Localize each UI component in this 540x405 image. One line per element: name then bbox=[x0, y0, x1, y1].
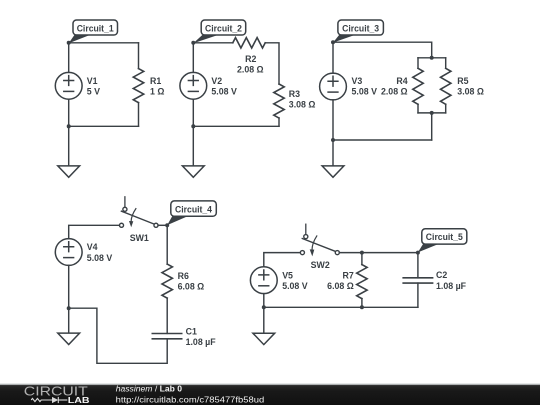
V5 value label bbox=[282, 270, 308, 291]
svg-text:R6: R6 bbox=[178, 271, 189, 281]
junction dot parallel top bbox=[430, 56, 434, 60]
wire to ground circuit 1 bbox=[68, 126, 70, 165]
wire R7 top stub bbox=[361, 253, 363, 265]
voltage source V5 bbox=[250, 267, 277, 294]
svg-text:V1: V1 bbox=[87, 76, 98, 86]
ground circuit 1 bbox=[58, 166, 80, 177]
C2 value label bbox=[436, 270, 467, 291]
voltage source V3 bbox=[320, 73, 347, 100]
wire node to C2 bbox=[417, 253, 419, 278]
svg-text:1 Ω: 1 Ω bbox=[150, 87, 164, 97]
wire V5 bottom bbox=[263, 294, 265, 308]
node label Circuit_3 bbox=[333, 20, 383, 43]
svg-text:Circuit_4: Circuit_4 bbox=[175, 204, 212, 214]
voltage source V2 bbox=[180, 72, 207, 99]
wire V1 bottom bbox=[68, 99, 70, 126]
C1 value label bbox=[186, 326, 217, 347]
junction dot circuit 1 bottom bbox=[67, 124, 71, 128]
svg-text:6.08 Ω: 6.08 Ω bbox=[178, 282, 205, 292]
footer black bar bbox=[0, 385, 540, 405]
V1 value label bbox=[87, 76, 100, 97]
wire V4 bottom bbox=[68, 265, 70, 308]
svg-text:V3: V3 bbox=[352, 76, 363, 86]
svg-text:R2: R2 bbox=[245, 54, 256, 64]
R7 value label bbox=[327, 271, 354, 292]
wire C1 bottom loop bbox=[69, 308, 168, 363]
svg-text:SW1: SW1 bbox=[130, 233, 149, 243]
node A3 junction dot bbox=[331, 40, 335, 44]
switch SW1 bbox=[119, 197, 158, 228]
junction dot R7 top bbox=[360, 251, 364, 255]
svg-text:C1: C1 bbox=[186, 326, 197, 336]
wire top circuit 1 bbox=[69, 42, 139, 44]
svg-text:V5: V5 bbox=[282, 270, 293, 280]
svg-text:R3: R3 bbox=[289, 89, 300, 99]
wire to ground circuit 2 bbox=[192, 126, 194, 165]
node B5 junction dot bbox=[416, 251, 420, 255]
junction dot circuit 3 bottom bbox=[331, 138, 335, 142]
ground circuit 5 bbox=[253, 333, 275, 344]
resistor R3 bbox=[274, 84, 284, 118]
svg-text:1.08 µF: 1.08 µF bbox=[186, 337, 217, 347]
node B4 junction dot bbox=[165, 223, 169, 227]
wire to ground circuit 3 bbox=[332, 140, 334, 166]
ground circuit 2 bbox=[182, 166, 204, 177]
wire V2 top bbox=[192, 43, 194, 73]
R4 value label bbox=[381, 76, 408, 97]
wire V3 bottom bbox=[332, 100, 334, 140]
svg-text:5.08 V: 5.08 V bbox=[87, 253, 113, 263]
svg-text:2.08 Ω: 2.08 Ω bbox=[381, 87, 408, 97]
wire V3 top bbox=[332, 42, 334, 73]
wire to ground circuit 5 bbox=[263, 307, 265, 333]
wire R1 top bbox=[138, 43, 140, 69]
svg-text:Circuit_3: Circuit_3 bbox=[342, 23, 379, 33]
wire R5 bottom stub bbox=[445, 104, 447, 113]
svg-text:5.08 V: 5.08 V bbox=[282, 281, 308, 291]
wire V2 bottom bbox=[192, 99, 194, 126]
wire SW1 to node bbox=[158, 224, 167, 226]
footer divider line bbox=[0, 384, 540, 385]
svg-text:R7: R7 bbox=[343, 271, 354, 281]
voltage source V1 bbox=[55, 72, 82, 99]
node A2 junction dot bbox=[191, 41, 195, 45]
CircuitLab logo schematic squiggle bbox=[31, 397, 67, 403]
junction dot circuit 4 ground node bbox=[67, 306, 71, 310]
wire bottom circuit 2 bbox=[193, 125, 279, 127]
capacitor C2 bbox=[403, 278, 432, 283]
svg-text:2.08 Ω: 2.08 Ω bbox=[237, 65, 264, 75]
svg-text:V2: V2 bbox=[211, 76, 222, 86]
R5 value label bbox=[457, 76, 484, 97]
wire parallel top bar bbox=[418, 57, 446, 59]
svg-text:1.08 µF: 1.08 µF bbox=[436, 281, 467, 291]
ground circuit 4 bbox=[58, 333, 80, 344]
svg-text:Circuit_2: Circuit_2 bbox=[205, 23, 242, 33]
wire bottom circuit 3 bbox=[333, 139, 432, 141]
resistor R4 bbox=[413, 68, 423, 104]
wire to ground circuit 4 bbox=[68, 308, 70, 333]
resistor R7 bbox=[357, 265, 367, 299]
wire top circuit 3 bbox=[333, 42, 432, 58]
svg-text:6.08 Ω: 6.08 Ω bbox=[327, 281, 354, 291]
svg-text:LAB: LAB bbox=[68, 395, 90, 405]
resistor R2 bbox=[233, 38, 265, 48]
switch SW2 bbox=[300, 224, 339, 256]
R2 value label bbox=[237, 54, 264, 75]
svg-text:Circuit_1: Circuit_1 bbox=[77, 23, 114, 33]
svg-text:R1: R1 bbox=[150, 76, 161, 86]
wire V1 top bbox=[68, 43, 70, 73]
svg-text:R5: R5 bbox=[457, 76, 468, 86]
svg-text:Circuit_5: Circuit_5 bbox=[426, 232, 463, 242]
junction dot circuit 5 ground node bbox=[262, 305, 266, 309]
wire top circuit 2 bbox=[193, 42, 233, 44]
svg-text:C2: C2 bbox=[436, 270, 447, 280]
junction dot parallel bottom bbox=[430, 111, 434, 115]
wire V5 top bbox=[264, 253, 301, 267]
wire R3 bottom bbox=[278, 118, 280, 126]
wire V4 top bbox=[69, 225, 120, 238]
svg-text:V4: V4 bbox=[87, 242, 98, 252]
wire R4 bottom stub bbox=[417, 104, 419, 113]
wire R5 top stub bbox=[445, 58, 447, 69]
V2 value label bbox=[211, 76, 237, 97]
V3 value label bbox=[352, 76, 378, 97]
R6 value label bbox=[178, 271, 205, 292]
junction dot R7 bottom bbox=[360, 305, 364, 309]
wire R1 bottom bbox=[138, 103, 140, 127]
svg-text:5.08 V: 5.08 V bbox=[352, 87, 378, 97]
wire R4 top stub bbox=[417, 58, 419, 69]
svg-text:hassinem / Lab 0: hassinem / Lab 0 bbox=[116, 383, 183, 393]
wire parallel bottom bar bbox=[418, 112, 446, 114]
node label Circuit_2 bbox=[193, 20, 245, 43]
voltage source V4 bbox=[55, 239, 82, 266]
wire C2 bottom bbox=[417, 283, 419, 307]
svg-text:5 V: 5 V bbox=[87, 87, 100, 97]
V4 value label bbox=[87, 242, 113, 263]
wire parallel to bottom bbox=[431, 113, 433, 140]
svg-text:3.08 Ω: 3.08 Ω bbox=[457, 87, 484, 97]
wire bottom circuit 1 bbox=[69, 125, 139, 127]
wire R6 to C1 bbox=[166, 298, 168, 333]
R1 value label bbox=[150, 76, 164, 97]
wire R2 to R3 bbox=[265, 43, 279, 84]
svg-text:http://circuitlab.com/c785477f: http://circuitlab.com/c785477fb58ud bbox=[116, 394, 265, 404]
capacitor C1 bbox=[152, 334, 181, 339]
R3 value label bbox=[289, 89, 316, 110]
wire node to R6 bbox=[166, 225, 168, 264]
ground circuit 3 bbox=[322, 166, 344, 177]
resistor R5 bbox=[441, 68, 451, 104]
svg-text:3.08 Ω: 3.08 Ω bbox=[289, 100, 316, 110]
node A1 junction dot bbox=[67, 41, 71, 45]
junction dot circuit 2 bottom bbox=[191, 124, 195, 128]
resistor R6 bbox=[162, 264, 172, 298]
node label Circuit_5 bbox=[418, 229, 467, 253]
wire R7 bottom stub bbox=[361, 299, 363, 308]
wire SW2 to node bbox=[339, 252, 418, 254]
node label Circuit_1 bbox=[69, 20, 118, 43]
svg-text:R4: R4 bbox=[396, 76, 407, 86]
svg-text:5.08 V: 5.08 V bbox=[211, 87, 237, 97]
svg-text:SW2: SW2 bbox=[311, 260, 330, 270]
node label Circuit_4 bbox=[167, 201, 216, 225]
wire bottom circuit 5 bbox=[264, 306, 418, 308]
resistor R1 bbox=[133, 69, 143, 103]
